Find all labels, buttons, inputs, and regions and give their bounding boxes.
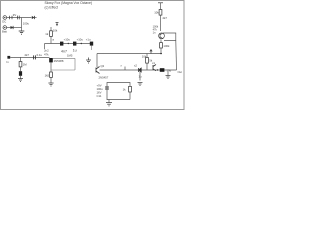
capacitor C1 xyxy=(17,16,19,20)
diode D3 xyxy=(139,68,142,72)
svg-text:4k7: 4k7 xyxy=(162,16,167,20)
capacitor C4 xyxy=(73,42,76,46)
wire xyxy=(160,48,162,54)
svg-text:10k: 10k xyxy=(154,11,159,15)
resistor R2 xyxy=(19,62,22,67)
input pad xyxy=(7,56,10,59)
resistor R6 xyxy=(146,58,149,64)
node dot xyxy=(68,43,69,44)
resistor R9 xyxy=(129,86,132,92)
wire xyxy=(108,100,110,103)
wire xyxy=(20,67,22,71)
wire xyxy=(146,54,148,58)
svg-text:x1: x1 xyxy=(152,61,155,65)
svg-text:Batt: Batt xyxy=(2,30,7,34)
svg-text:1u: 1u xyxy=(73,49,77,53)
pot wiper xyxy=(150,50,152,54)
ground xyxy=(166,76,171,79)
capacitor C7 xyxy=(34,55,36,59)
svg-text:DC: DC xyxy=(2,20,6,24)
capacitor C8 xyxy=(49,58,53,62)
svg-text:Q2: Q2 xyxy=(101,64,105,68)
svg-text:10k: 10k xyxy=(142,55,147,59)
feedback wire xyxy=(163,33,176,41)
ground xyxy=(86,58,91,64)
svg-text:(c) Effect: (c) Effect xyxy=(45,6,59,10)
mid rail wire xyxy=(97,53,162,55)
wire xyxy=(50,77,52,83)
ground xyxy=(19,31,25,34)
transistor Q4 xyxy=(153,65,156,71)
resistor R7 xyxy=(159,10,162,16)
svg-text:10u: 10u xyxy=(167,68,172,72)
power rail wire xyxy=(107,83,130,101)
wire tick xyxy=(124,67,126,71)
capacitor C5 xyxy=(90,42,93,46)
svg-text:2N5457: 2N5457 xyxy=(99,76,109,80)
svg-text:+1u: +1u xyxy=(86,38,91,42)
main signal wire xyxy=(45,43,94,45)
ground xyxy=(48,83,53,86)
svg-text:4k7: 4k7 xyxy=(24,53,29,57)
capacitor C6 xyxy=(19,71,22,76)
wire stub xyxy=(91,46,93,50)
diode D1 xyxy=(32,16,37,19)
wire xyxy=(96,54,98,68)
svg-text:1M5: 1M5 xyxy=(67,53,73,57)
wire node to main line xyxy=(50,27,52,44)
svg-text:+10u: +10u xyxy=(77,38,84,42)
svg-text:0.1u: 0.1u xyxy=(37,53,43,57)
capacitor C10 xyxy=(105,87,109,89)
wire xyxy=(7,27,22,29)
transistor Q2 xyxy=(96,67,100,74)
node dot xyxy=(157,69,158,70)
wire down xyxy=(139,70,141,81)
svg-text:+10u: +10u xyxy=(64,38,71,42)
svg-text:C11: C11 xyxy=(97,94,102,98)
svg-text:Out: Out xyxy=(178,70,183,74)
svg-text:10k: 10k xyxy=(53,29,58,33)
diode D2 xyxy=(11,26,14,29)
ground xyxy=(18,79,23,82)
resistor R5 xyxy=(50,72,53,77)
svg-text:100k: 100k xyxy=(163,44,170,48)
svg-text:x2: x2 xyxy=(134,64,137,68)
resistor R1 xyxy=(50,31,53,37)
battery jack J2 xyxy=(3,26,7,30)
wire xyxy=(51,69,75,71)
wire xyxy=(160,3,162,31)
svg-text:1k5: 1k5 xyxy=(45,73,50,77)
svg-text:9V: 9V xyxy=(13,13,17,17)
wire xyxy=(20,76,22,79)
+9V rail top right xyxy=(158,2,163,4)
svg-text:100u: 100u xyxy=(23,21,30,25)
+9V terminal xyxy=(56,23,59,27)
wire stub xyxy=(44,44,46,50)
switch S1 xyxy=(10,16,13,19)
resistor R8 xyxy=(160,43,163,48)
wire xyxy=(175,41,178,70)
node dot xyxy=(81,43,82,44)
ground xyxy=(138,83,143,86)
svg-text:47k: 47k xyxy=(44,53,49,57)
wire xyxy=(100,69,177,71)
ground xyxy=(106,103,112,106)
wire xyxy=(7,17,32,19)
input wire xyxy=(10,56,49,58)
wire xyxy=(53,57,75,59)
wire xyxy=(160,39,162,42)
svg-text:1M: 1M xyxy=(23,63,28,67)
svg-text:1u: 1u xyxy=(139,75,143,79)
wire xyxy=(74,58,76,70)
wire xyxy=(50,62,52,72)
wire xyxy=(129,95,131,100)
transistor Q3 xyxy=(159,33,165,39)
wire xyxy=(107,99,130,101)
wire down xyxy=(20,57,22,61)
border frame xyxy=(1,1,185,110)
node dot xyxy=(160,53,162,55)
wire xyxy=(21,18,23,32)
capacitor C9 xyxy=(160,68,165,72)
DC jack J1 xyxy=(3,16,7,20)
wire xyxy=(146,63,148,70)
svg-text:Slowy Fox (Magna Vox Octave): Slowy Fox (Magna Vox Octave) xyxy=(45,1,93,5)
svg-text:2N5088: 2N5088 xyxy=(54,59,64,63)
capacitor C3 xyxy=(60,42,63,46)
wire xyxy=(167,72,169,76)
